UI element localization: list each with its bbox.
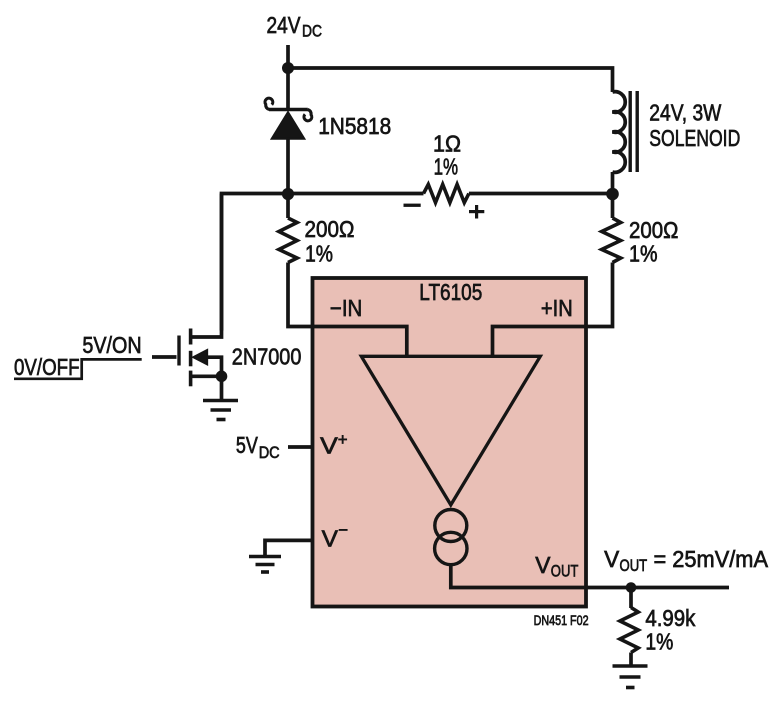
wire: right 200-ohm top lead bbox=[611, 194, 615, 219]
diode D1 1N5818 schottky cathode bar bbox=[269, 108, 308, 112]
transistor Q1 body arrow bbox=[193, 350, 208, 365]
transistor Q1 channel segment body bbox=[189, 351, 193, 367]
amplifier triangle inside LT6105 bbox=[361, 356, 540, 505]
ground symbol under MOSFET bbox=[203, 401, 238, 420]
wire: mid rail left segment to 1-ohm resistor bbox=[222, 194, 424, 331]
wire: 4.99k bottom lead bbox=[629, 653, 633, 666]
wire: amplifier output to VOUT rail bbox=[451, 563, 729, 588]
wire: solenoid bottom lead to node bbox=[611, 172, 615, 195]
junction dot at 24VDC node bbox=[282, 62, 294, 74]
wire: MOSFET drain to mid rail bbox=[191, 194, 222, 338]
solenoid L1 core bar 1 bbox=[629, 91, 632, 172]
svg-text:OUT: OUT bbox=[551, 562, 579, 581]
plus polarity mark at 1-ohm horizontal bbox=[469, 210, 484, 213]
svg-text:1%: 1% bbox=[305, 240, 333, 266]
transistor Q1 2N7000 gate bar bbox=[177, 336, 180, 366]
svg-text:−: − bbox=[338, 521, 348, 540]
transistor Q1 channel segment source bbox=[189, 371, 193, 387]
plus polarity mark at 1-ohm vertical bbox=[475, 205, 478, 219]
resistor left 200-ohm zigzag bbox=[279, 218, 297, 263]
solenoid L1 core bar 2 bbox=[636, 91, 639, 172]
svg-text:−IN: −IN bbox=[330, 295, 362, 321]
wire: mid rail right segment from 1-ohm resistor bbox=[469, 192, 613, 196]
transistor Q1 channel segment drain bbox=[189, 329, 193, 345]
diode D1 triangle bbox=[272, 112, 305, 139]
junction dot at MOSFET source/body node bbox=[216, 371, 228, 383]
wire: 4.99k top lead bbox=[629, 588, 633, 609]
wire: left 200-ohm top lead bbox=[286, 194, 290, 219]
current source circle bottom bbox=[435, 532, 467, 564]
wire: source lead bbox=[191, 376, 222, 399]
svg-text:4.99k: 4.99k bbox=[645, 605, 695, 631]
input step waveform 0V/OFF to 5V/ON bbox=[14, 359, 142, 378]
svg-text:5V/ON: 5V/ON bbox=[82, 332, 141, 358]
svg-text:SOLENOID: SOLENOID bbox=[649, 125, 740, 151]
junction dot at diode / mid rail node bbox=[282, 188, 294, 200]
junction dot at solenoid / mid rail node bbox=[606, 188, 619, 201]
wire: V- pin to ground bbox=[265, 540, 313, 556]
resistor 4.99k zigzag bbox=[620, 608, 638, 653]
svg-text:DC: DC bbox=[259, 443, 280, 462]
wire: diode bottom lead bbox=[286, 139, 290, 194]
svg-text:LT6105: LT6105 bbox=[419, 279, 482, 305]
wire: 24VDC supply stub bbox=[286, 45, 290, 68]
wire: left 200-ohm bottom lead into -IN bbox=[288, 263, 407, 357]
wire: top rail from supply node to solenoid bbox=[288, 68, 613, 92]
ground symbol at V- pin bbox=[249, 557, 281, 573]
wire: gate lead bbox=[152, 355, 177, 359]
svg-text:24V: 24V bbox=[267, 12, 302, 38]
wire: body arrow lead to source node bbox=[206, 357, 222, 376]
svg-text:1%: 1% bbox=[434, 154, 459, 180]
svg-text:V: V bbox=[322, 526, 339, 552]
wire: diode top lead bbox=[286, 68, 290, 109]
svg-text:= 25mV/mA: = 25mV/mA bbox=[654, 546, 769, 572]
svg-text:V: V bbox=[535, 552, 551, 578]
svg-text:+: + bbox=[338, 430, 348, 449]
svg-text:200Ω: 200Ω bbox=[305, 216, 355, 242]
svg-text:5V: 5V bbox=[236, 432, 259, 458]
svg-text:200Ω: 200Ω bbox=[629, 217, 678, 243]
svg-text:V: V bbox=[320, 433, 338, 459]
svg-text:2N7000: 2N7000 bbox=[232, 344, 302, 370]
svg-text:V: V bbox=[604, 546, 620, 572]
junction dot at VOUT node bbox=[626, 582, 637, 593]
resistor R sense 1-ohm zigzag bbox=[424, 184, 469, 202]
svg-text:DN451 F02: DN451 F02 bbox=[534, 612, 589, 628]
wire: V+ pin stub bbox=[288, 445, 313, 449]
resistor right 200-ohm zigzag bbox=[602, 218, 621, 263]
minus polarity mark at 1-ohm bbox=[404, 204, 421, 207]
diode D1 schottky right hook bbox=[304, 110, 312, 121]
diode D1 schottky left hook bbox=[265, 98, 273, 109]
wire: right 200-ohm bottom lead into +IN bbox=[493, 263, 613, 357]
svg-text:1N5818: 1N5818 bbox=[318, 113, 391, 139]
svg-text:24V, 3W: 24V, 3W bbox=[649, 99, 721, 125]
op-amp U1 LT6105 body box bbox=[313, 278, 587, 607]
solenoid L1 coil bbox=[613, 92, 626, 173]
ground symbol under 4.99k bbox=[613, 666, 648, 688]
svg-text:OUT: OUT bbox=[620, 556, 648, 575]
svg-text:+IN: +IN bbox=[541, 295, 573, 321]
svg-text:0V/OFF: 0V/OFF bbox=[14, 354, 80, 380]
svg-text:DC: DC bbox=[302, 22, 322, 41]
current source circle top bbox=[435, 510, 467, 542]
svg-text:1%: 1% bbox=[645, 629, 673, 655]
svg-text:1%: 1% bbox=[629, 241, 658, 267]
